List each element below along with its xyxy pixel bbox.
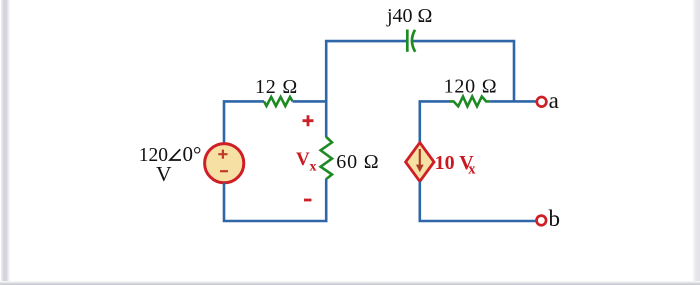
wire 120-ohm right lead to terminal a bbox=[490, 100, 536, 103]
svg-text:b: b bbox=[549, 206, 561, 231]
capacitor j40 (curved right plate) bbox=[412, 30, 415, 52]
dependent current source diamond 10Vx bbox=[406, 143, 434, 182]
wire dependent-source upper lead with corner to 120-ohm bbox=[420, 101, 450, 143]
wire 12-ohm left lead with left-top corner bbox=[224, 101, 264, 144]
voltage source plus mark bbox=[218, 150, 227, 159]
voltage source VS 120∠0° circle bbox=[205, 144, 244, 183]
svg-text:V: V bbox=[156, 162, 172, 186]
capacitor j40 (left plate) bbox=[406, 30, 409, 52]
label minus of Vx bbox=[304, 199, 312, 202]
angle symbol of source label bbox=[170, 149, 181, 160]
resistor 120 ohm zigzag bbox=[450, 97, 490, 107]
svg-text:x: x bbox=[468, 162, 476, 178]
svg-text:0°: 0° bbox=[183, 142, 202, 166]
svg-text:j40 Ω: j40 Ω bbox=[386, 5, 432, 27]
resistor 60 ohm vertical zigzag bbox=[321, 137, 332, 179]
terminal b bbox=[537, 216, 547, 226]
svg-text:V: V bbox=[296, 149, 310, 170]
svg-text:60 Ω: 60 Ω bbox=[336, 151, 379, 173]
voltage source minus mark bbox=[220, 170, 228, 172]
svg-text:12 Ω: 12 Ω bbox=[255, 76, 298, 98]
wire bottom-left loop (lower-left vertical, bottom wire, middle lower vertical) bbox=[224, 179, 326, 222]
wire top-right horizontal segment with right descent bbox=[412, 41, 514, 101]
svg-text:a: a bbox=[549, 88, 559, 113]
wire dependent-source lower lead with bottom-right wire to terminal b bbox=[420, 182, 536, 221]
wire 12-ohm right lead bbox=[293, 100, 327, 103]
dependent source arrow (downward) bbox=[419, 149, 421, 167]
svg-text:120 Ω: 120 Ω bbox=[444, 76, 498, 98]
terminal a bbox=[537, 97, 547, 107]
wire top-left horizontal segment bbox=[326, 41, 407, 137]
label plus of Vx bbox=[303, 115, 314, 126]
resistor 12 ohm zigzag bbox=[264, 97, 293, 106]
svg-text:x: x bbox=[310, 160, 317, 175]
